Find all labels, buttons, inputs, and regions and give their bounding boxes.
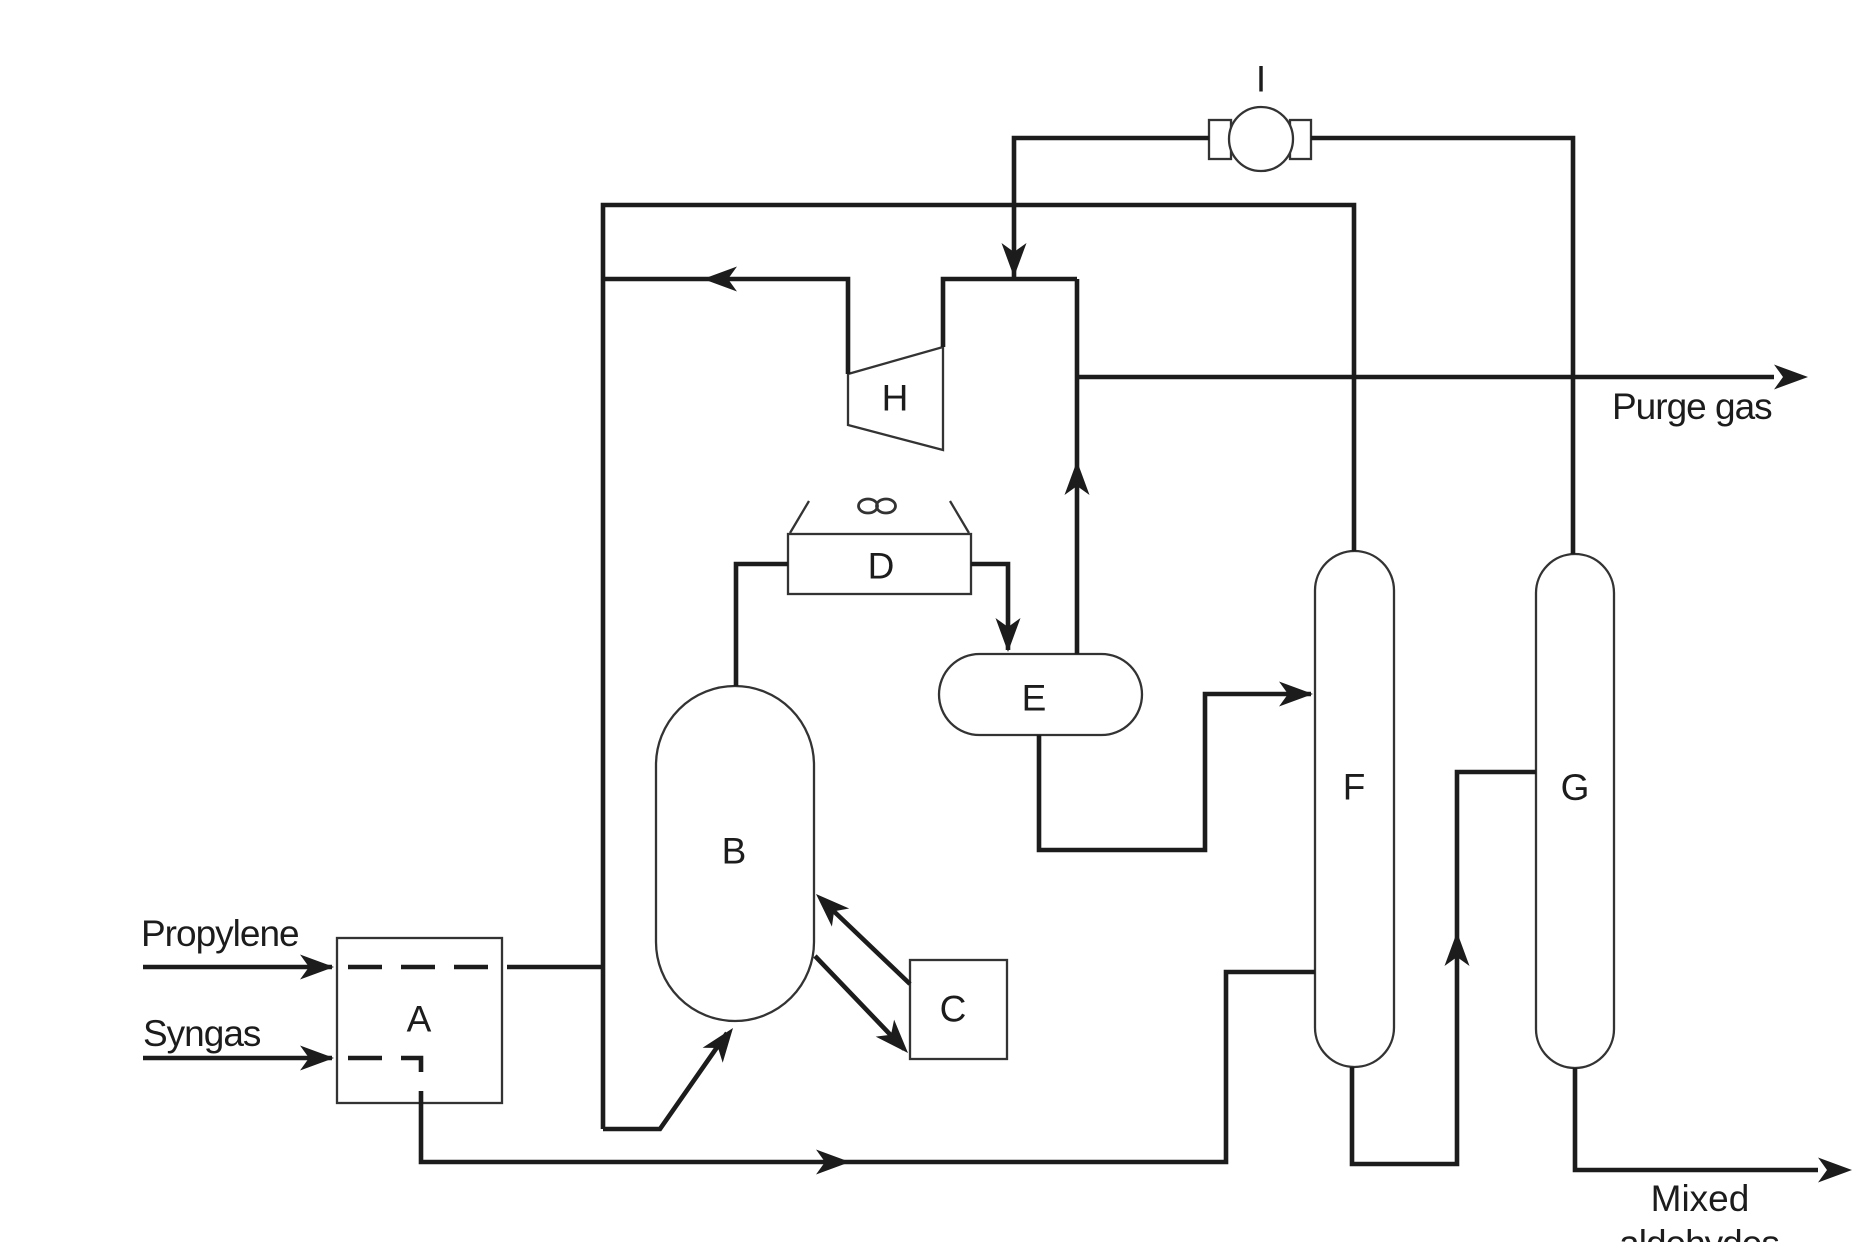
wire syngas feed into A <box>143 1056 332 1061</box>
wire propylene through A (dashed) <box>348 965 516 970</box>
svg-text:D: D <box>868 546 895 587</box>
wire E vapor riser up to H inlet <box>1075 279 1080 654</box>
arrowhead diagonal into C (from B) <box>876 1020 908 1053</box>
wire H outlet to recycle (left arrow) <box>603 279 848 374</box>
air cooler D <box>788 534 971 594</box>
wire C to B (diagonal) <box>821 899 910 984</box>
arrowhead up on E riser <box>1065 461 1090 495</box>
svg-text:H: H <box>882 378 909 419</box>
wire recycle into B bottom (diagonal) <box>603 1033 727 1129</box>
column G <box>1536 554 1614 1068</box>
wire purge gas line <box>1077 375 1774 380</box>
mixer A (dashed-through box) <box>337 938 502 1103</box>
svg-text:A: A <box>407 999 432 1040</box>
wire propylene from A to recycle line <box>516 965 603 970</box>
arrowhead right propylene <box>300 955 334 980</box>
wire compressor I discharge to G top <box>1311 138 1573 554</box>
svg-text:Syngas: Syngas <box>143 1013 261 1054</box>
arrowhead right mixed aldehydes <box>1818 1158 1852 1183</box>
wire D to flash drum E <box>971 564 1008 650</box>
wire A bottom to long bottom header into F <box>421 972 1315 1162</box>
svg-text:Propylene: Propylene <box>141 913 299 954</box>
svg-text:E: E <box>1022 678 1047 719</box>
compressor H (trapezoid) <box>848 347 943 450</box>
svg-text:B: B <box>722 831 747 872</box>
column F <box>1315 551 1394 1067</box>
wire syngas through A (dashed) <box>348 1058 421 1096</box>
wire compressor I suction (down into H inlet) <box>1014 138 1209 279</box>
reactor B <box>656 686 814 1021</box>
wire G bottoms to mixed aldehydes outlet <box>1575 1068 1818 1170</box>
flash drum E <box>939 654 1142 735</box>
wire H inlet channel right side <box>943 279 1077 347</box>
arrowhead right purge gas <box>1774 365 1808 390</box>
arrowhead down into E <box>996 618 1021 652</box>
arrowhead diagonal into B bottom <box>703 1028 733 1063</box>
svg-text:Mixed: Mixed <box>1651 1178 1750 1219</box>
recycle compressor I right flange <box>1290 120 1311 159</box>
wire B to C (diagonal) <box>815 956 904 1049</box>
recycle compressor I left flange <box>1209 120 1231 159</box>
arrowhead right on bottom header <box>816 1150 850 1175</box>
arrowhead right syngas <box>300 1046 334 1071</box>
svg-text:Purge gas: Purge gas <box>1612 386 1772 427</box>
arrowhead up on F to G line <box>1445 932 1470 966</box>
wire B top to cooler D <box>736 564 788 686</box>
arrowhead right into F (from E) <box>1279 682 1313 707</box>
svg-text:I: I <box>1256 59 1266 100</box>
svg-text:aldehydes: aldehydes <box>1619 1223 1779 1242</box>
svg-text:G: G <box>1561 767 1590 808</box>
wire propylene feed into A <box>143 965 332 970</box>
svg-text:F: F <box>1343 767 1366 808</box>
catalyst unit C <box>910 960 1007 1059</box>
wire F bottoms to column G <box>1352 772 1536 1164</box>
wire recycle loop: left vertical + top header to F <box>603 205 1354 1129</box>
arrowhead diagonal into B right (from C) <box>816 894 849 927</box>
air cooler D left fan support <box>790 501 809 533</box>
wire E liquid to column F <box>1039 694 1311 850</box>
arrowhead left on H outlet recycle <box>703 267 737 292</box>
air cooler D fan symbol (infinity) <box>859 499 878 513</box>
arrowhead down into H inlet from I <box>1002 243 1027 277</box>
recycle compressor I body <box>1229 107 1293 171</box>
air cooler D right fan support <box>950 501 969 533</box>
svg-text:C: C <box>940 989 967 1030</box>
